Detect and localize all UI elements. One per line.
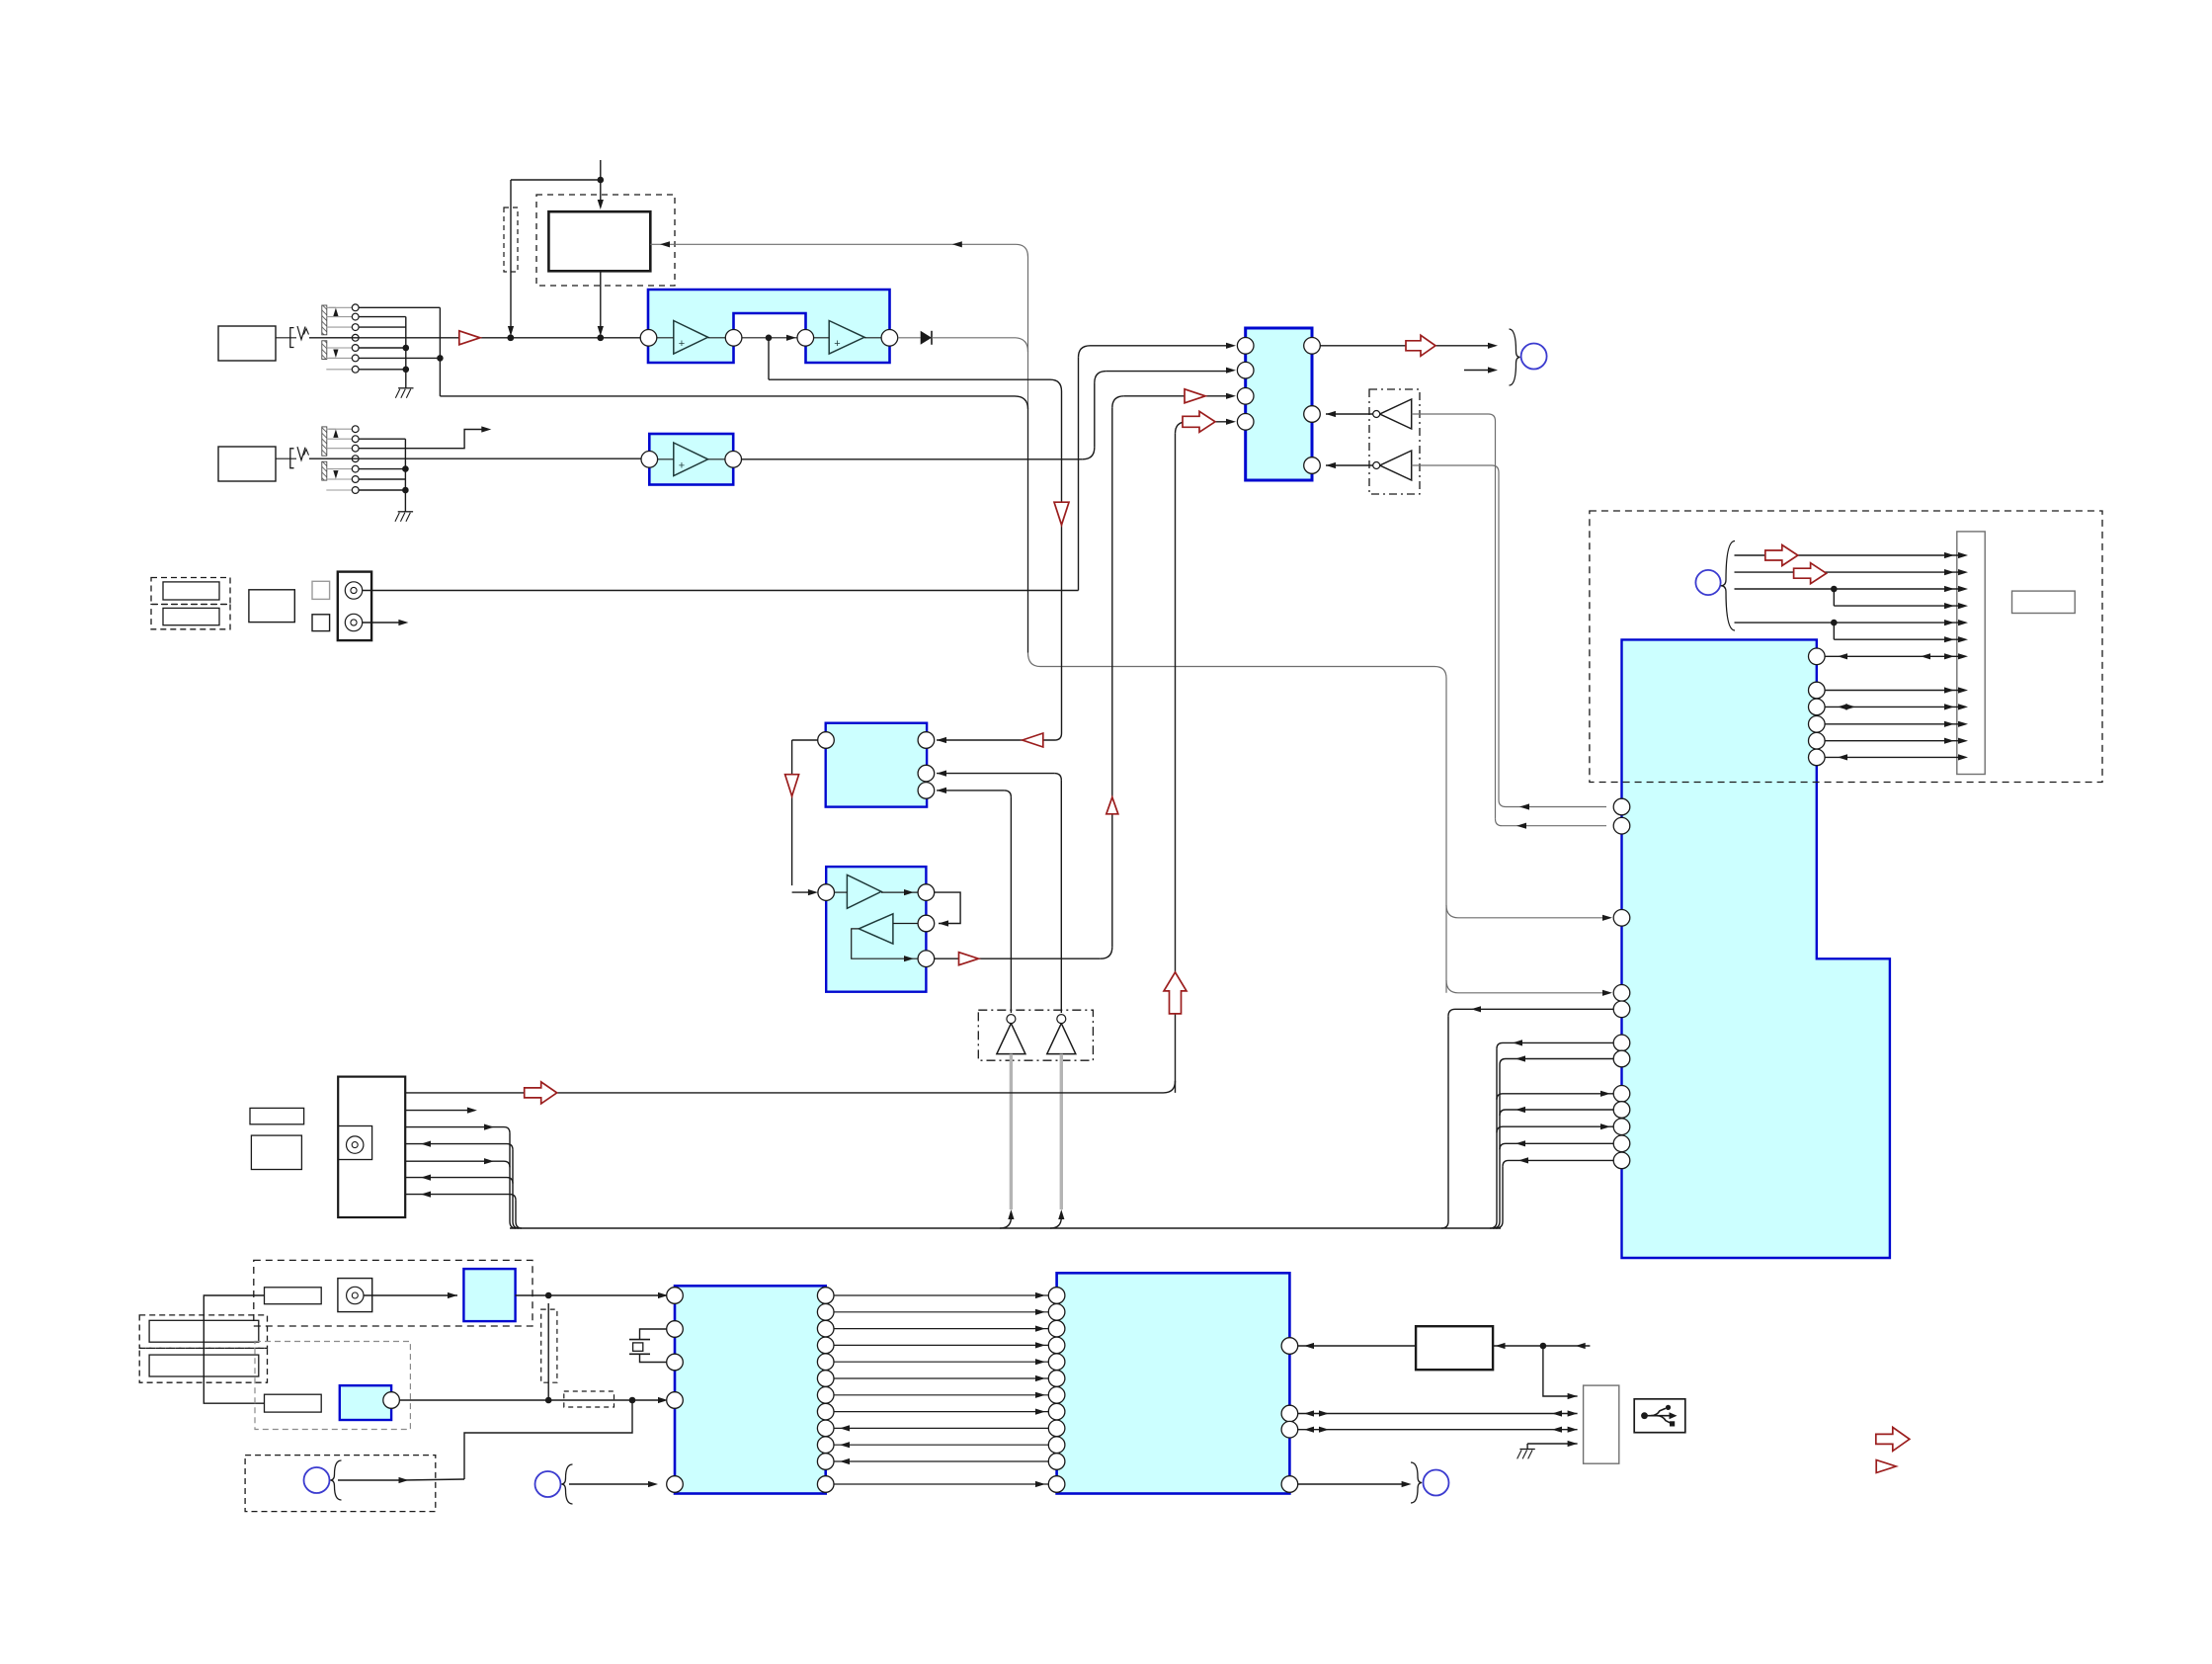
- svg-text:+: +: [834, 338, 840, 350]
- svg-text:+: +: [679, 460, 685, 472]
- svg-text:+: +: [679, 338, 685, 350]
